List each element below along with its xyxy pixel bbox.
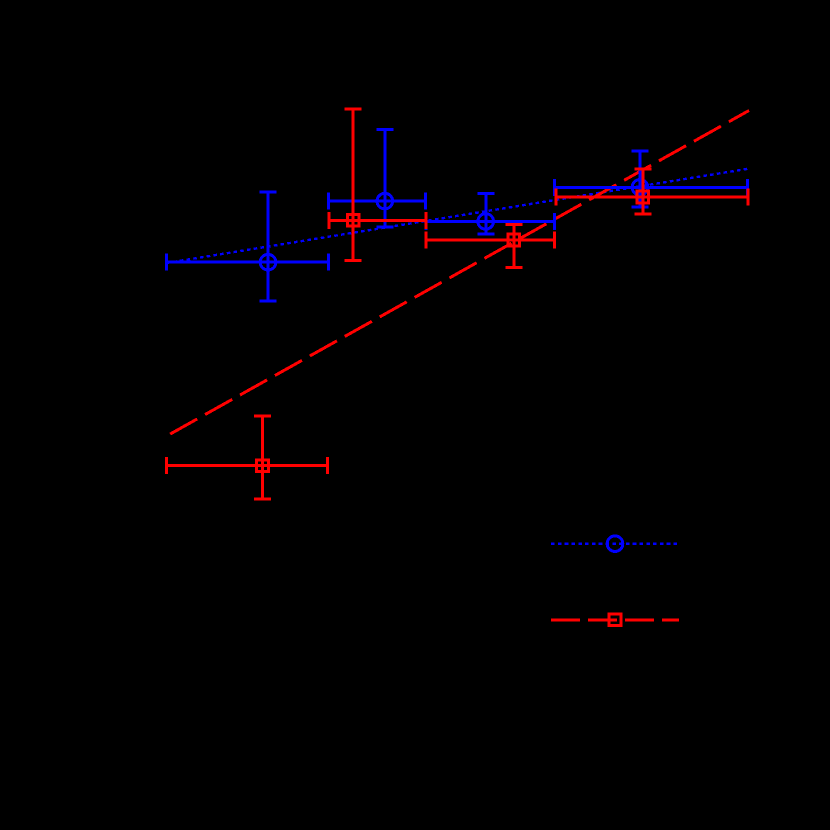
legend red square marker: [609, 614, 621, 626]
blue dotted fit line: [166, 169, 749, 263]
legend red dashed line sample: [551, 618, 679, 621]
red error bars point 3: [426, 224, 555, 267]
red error bars point 2: [329, 109, 426, 261]
red error bars point 4: [556, 169, 748, 214]
blue error bars point 4: [555, 151, 748, 207]
legend blue dotted line sample: [551, 543, 679, 545]
legend blue circle marker: [607, 536, 623, 552]
blue error bars point 1: [166, 192, 328, 301]
blue marker point 1: [260, 254, 276, 270]
blue error bars point 3: [426, 194, 555, 234]
red marker point 2: [347, 215, 359, 227]
blue error bars point 2: [328, 130, 425, 228]
blue marker point 4: [632, 180, 648, 196]
blue marker point 2: [377, 193, 393, 209]
red marker point 3: [508, 234, 520, 246]
red error bars point 1: [167, 416, 328, 499]
blue marker point 3: [478, 214, 494, 230]
red marker point 1: [257, 460, 269, 472]
red marker point 4: [637, 191, 649, 203]
red dashed fit line: [167, 111, 749, 437]
